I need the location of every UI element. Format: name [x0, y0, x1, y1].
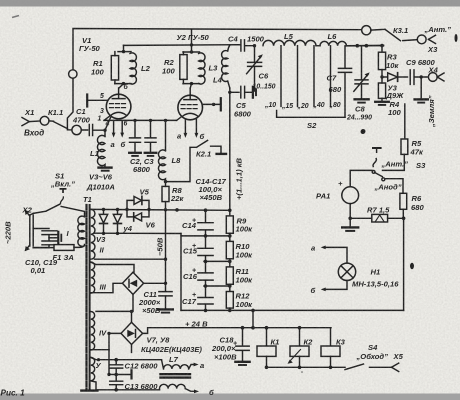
variable capacitor C6 — [248, 46, 262, 91]
filament arrow b (V2) — [195, 120, 197, 135]
ground between C12 C13 — [116, 374, 131, 376]
zero volt rail — [181, 309, 404, 311]
tube V1 grids (dashes) — [110, 104, 126, 108]
resistor R2 / inductor L3 tank — [183, 45, 200, 88]
capacitor C18 — [241, 326, 245, 330]
winding III — [91, 262, 95, 293]
winding II taps to diodes — [95, 232, 182, 234]
relay contact K2.1 — [166, 140, 222, 181]
rectifier rail from winding II — [91, 208, 230, 211]
resistor R7 — [350, 217, 372, 219]
choke L7 core — [161, 373, 191, 375]
inductor L2 coil — [130, 53, 136, 84]
stub joining top line — [191, 29, 193, 45]
variable capacitor C8 — [355, 46, 368, 99]
stray scan specks — [301, 34, 457, 373]
bridge 1 negative to winding IV line — [96, 294, 133, 311]
wire K1.1 to C1 — [67, 129, 72, 131]
capacitor C9 — [410, 70, 428, 85]
winding IV — [91, 312, 95, 351]
feedthrough capacitor C1 bushing — [72, 125, 81, 134]
divider rail 2 — [181, 235, 230, 237]
mains lead X2 (twin line with arrows) — [30, 215, 33, 246]
relay common rail — [267, 366, 346, 368]
filament arrow a (V1) — [113, 121, 115, 134]
inductor L8 — [158, 120, 165, 181]
band switch S2 wiper bus — [277, 111, 345, 118]
limiter diodes V5 V6 — [125, 208, 128, 211]
resistor R5 — [401, 139, 408, 154]
resistor R12 — [229, 286, 231, 292]
connector X5 — [392, 363, 399, 371]
resistor R9 — [229, 210, 231, 216]
tube V1 anode — [112, 88, 125, 99]
divider rail 4 — [204, 285, 230, 287]
winding IV taps to bridge 2 — [130, 310, 133, 313]
capacitor C15 — [198, 236, 213, 262]
node grid V1 — [103, 129, 106, 132]
scanner top band — [0, 0, 460, 7]
wire down to +24V block — [403, 218, 405, 310]
ground under PA1 — [349, 218, 351, 226]
stub joining rails — [252, 310, 254, 327]
diode V3 (Д9Ж) — [382, 76, 388, 78]
resistor R8 — [162, 186, 169, 201]
feedthrough insulator on bypass wire — [69, 70, 77, 78]
switch S4 — [345, 364, 364, 370]
rail dots — [164, 208, 167, 211]
tube V2 grids — [181, 105, 197, 109]
winding III taps — [91, 262, 134, 272]
core ground — [81, 389, 97, 391]
tube V2 anode — [184, 88, 197, 99]
ground under C18 — [235, 361, 249, 363]
resistor R3 — [380, 44, 384, 48]
scanner bottom band — [0, 394, 460, 400]
resistor R10 — [229, 236, 231, 242]
relay K2 — [298, 326, 302, 330]
filament arrow a (V2) — [184, 120, 186, 135]
relay K3 — [330, 328, 332, 346]
resistor R11 — [229, 261, 231, 267]
resistor R4 — [378, 83, 385, 98]
ground after C5 — [252, 87, 254, 98]
capacitor C14 — [198, 210, 213, 236]
diode V3 — [102, 208, 105, 211]
connector X4 — [428, 73, 437, 82]
capacitor C3 — [145, 120, 156, 152]
bias feed line — [180, 234, 182, 311]
ground under L1 — [99, 166, 112, 168]
feedthrough insulator near K3.1 — [362, 26, 371, 35]
winding IV return to filament midpoint — [109, 350, 116, 375]
wire X1 to K1.1 — [29, 120, 40, 123]
relay contact K1.1 — [49, 121, 67, 129]
capacitor C16 — [198, 261, 213, 286]
meter PA1 — [342, 187, 359, 204]
dots on +400V rail — [204, 208, 208, 212]
transformer T1 primary winding I — [78, 216, 85, 246]
filament wiring bottom — [91, 381, 160, 390]
grid line between tubes — [104, 116, 182, 120]
bridge 2 ground stub — [131, 345, 133, 353]
wire node to tube V1 grid — [105, 118, 111, 131]
+24V rail — [143, 328, 331, 334]
tube V1 envelope — [106, 94, 131, 119]
stray scan mark top left — [12, 16, 19, 18]
relay contact K3.1 — [371, 29, 417, 40]
tube V2 envelope — [178, 95, 203, 120]
tube V2 cathode — [183, 113, 197, 115]
wire PA1 to S3 — [350, 170, 372, 186]
inductor L3 coil — [199, 53, 205, 84]
capacitor C13 — [110, 375, 123, 390]
capacitors C10 C19 across mains — [33, 229, 57, 248]
switch S3 arm — [373, 159, 377, 167]
choke L7 top winding — [162, 360, 195, 369]
winding V — [91, 357, 95, 380]
switch S1 — [30, 204, 85, 217]
diode V4 — [116, 208, 119, 211]
bridge rectifier 2 (V7 V8) — [121, 322, 143, 344]
capacitor C5 — [228, 91, 231, 94]
band switch S2 tap wires — [280, 46, 282, 107]
-50V line — [165, 210, 167, 283]
ground under C2 — [129, 152, 141, 154]
capacitor C4 — [241, 40, 255, 51]
filament wiring top — [91, 358, 162, 360]
HV vertical line — [229, 88, 231, 210]
switch S3 antenna contact — [373, 147, 381, 149]
connector X3 — [417, 35, 426, 44]
fuse F1 — [33, 247, 54, 249]
tube V2 screen lead and bypass — [202, 103, 219, 105]
filament arrow b (V1) — [121, 121, 123, 134]
capacitor C2 — [130, 120, 141, 152]
inductor L5 — [263, 40, 316, 45]
capacitor C12 — [110, 360, 123, 375]
resistor R1 / inductor L2 parallel tank — [115, 45, 131, 88]
winding II — [91, 209, 95, 259]
coax feedthrough at input — [40, 116, 49, 125]
capacitor C7 on 80m tap — [338, 46, 351, 118]
capacitor C17 — [198, 286, 213, 310]
ground under C3 — [145, 152, 157, 154]
divider rail 3 — [204, 260, 230, 262]
lamp H1 — [338, 263, 355, 280]
choke L7 bottom winding — [160, 384, 196, 391]
bridge 1 output to C11 — [144, 282, 166, 284]
inductor L6 — [320, 41, 346, 45]
tube V1 cathode — [112, 112, 126, 114]
connector X1 — [22, 118, 29, 126]
wire tank output — [346, 45, 383, 47]
ground under C8 — [355, 98, 369, 100]
tube V1 screen lead and bypass — [88, 99, 107, 101]
ground under C11 — [158, 308, 173, 310]
resistor R6 — [400, 193, 407, 209]
transformer T1 core — [85, 205, 87, 390]
inductor L4 anode choke — [228, 45, 241, 51]
S1 actuator mark — [60, 189, 67, 193]
wire: antenna bypass line (top) — [67, 29, 364, 129]
ground at X4 (Земля) — [420, 75, 423, 78]
capacitor C11 — [159, 283, 172, 308]
inductor L1 — [97, 130, 105, 167]
wire R5 feed — [404, 104, 406, 139]
anode feed line (y45) — [124, 44, 241, 47]
capacitor C1 — [81, 125, 105, 136]
relay K1 — [265, 326, 269, 330]
ground under R4 — [375, 101, 389, 103]
bridge rectifier 1 (to C11) — [122, 272, 143, 294]
switch S3 anode contact wire to R6 — [385, 179, 403, 194]
